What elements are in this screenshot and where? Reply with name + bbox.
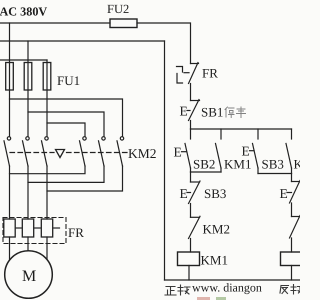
svg-text:KM1: KM1 [224, 157, 251, 172]
wire pole 2 output down to FR [27, 166, 29, 219]
wire FR to motor U [9, 237, 11, 261]
wire phase A through fuse to KM1 pole 1 [9, 63, 11, 137]
svg-text:E: E [180, 186, 188, 201]
power line L3 [0, 59, 47, 61]
power line L2 [0, 40, 165, 42]
power line L1 [0, 22, 110, 24]
wire pole 3 output down to FR [46, 166, 48, 219]
fuse FU1 pole 1 [6, 63, 14, 91]
wire KM2 pole 5 output to phase V [28, 166, 104, 182]
wire KM1 coil to bottom rail [188, 266, 190, 281]
wire phase B branch to KM2 pole 5 [28, 112, 104, 136]
label 正转 (forward) [165, 285, 190, 295]
fuse FU1 pole 2 [24, 63, 32, 91]
wire KM1 interlock to KM2 coil [291, 238, 293, 252]
coil KM2 (clipped at right edge) [281, 252, 303, 266]
contactor KM1 main contact pole 1 [4, 137, 11, 166]
wire KM2 pole 6 output to phase W [47, 166, 123, 191]
wire phase A branch to KM2 pole 6 [10, 99, 123, 136]
svg-text:KM2: KM2 [128, 146, 157, 161]
svg-text:FR: FR [202, 66, 218, 81]
wire FR to motor V [27, 237, 29, 252]
wire KM2 pole 4 output to phase U [10, 166, 86, 174]
wire phase B through fuse to KM1 pole 2 [27, 63, 29, 137]
wire join SB3/KM2 [258, 173, 292, 175]
pushbutton SB1 stop (NC) [180, 100, 200, 121]
wire SB3 to KM2 interlock [190, 204, 192, 218]
wire phase B drop [27, 41, 29, 63]
wire phase C drop [46, 60, 48, 63]
svg-text:www. diangon: www. diangon [192, 281, 262, 295]
svg-text:KM2: KM2 [203, 222, 230, 237]
wire right branch down [291, 174, 293, 182]
wire join SB2/KM1 [191, 171, 222, 173]
svg-text:SB2: SB2 [193, 157, 215, 172]
svg-text:KM1: KM1 [201, 253, 228, 268]
wire right control rail [164, 41, 166, 280]
svg-text:SB3: SB3 [204, 186, 226, 201]
contactor KM2 interlock contact (NC) [189, 216, 201, 238]
contactor KM1 main contact pole 2 [23, 137, 30, 166]
svg-text:AC 380V: AC 380V [0, 5, 47, 19]
contactor KM1 interlock contact (NC, right branch) [290, 216, 301, 239]
pushbutton SB2 interlock (NC, right branch) [280, 181, 301, 204]
contactor KM1 auxiliary contact (NO, seal-in) [216, 129, 222, 172]
motor M [5, 251, 53, 299]
svg-text:E: E [242, 144, 250, 159]
wire branch bus [191, 128, 292, 130]
contactor KM2 main contact pole 4 [80, 137, 87, 166]
wire phase C branch to KM2 pole 4 [47, 123, 85, 136]
svg-text:E: E [280, 186, 288, 201]
svg-text:FR: FR [68, 225, 84, 240]
wire bottom control rail [165, 279, 301, 281]
contactor KM1 main contact pole 3 [42, 137, 49, 166]
mechanical interlock triangle [56, 150, 65, 158]
thermal relay FR dashed enclosure [3, 218, 66, 244]
pushbutton SB3 interlock (NC) [180, 181, 201, 204]
thermal relay FR control contact (NC) [177, 63, 199, 84]
watermark colored fragments [197, 297, 210, 300]
pushbutton SB3 reverse start (NO) [242, 129, 259, 174]
contactor KM2 main contact pole 5 [99, 137, 106, 166]
thermal relay linkage dashes [16, 227, 59, 229]
wire phase A drop [9, 23, 11, 63]
wire SB2 to KM1 interlock (right branch) [291, 203, 293, 217]
thermal relay FR heater element 1 [4, 219, 15, 237]
contactor KM2 main contact pole 6 [117, 137, 124, 166]
fuse FU1 pole 3 [43, 63, 51, 91]
wire SB1 to branch bus [190, 121, 192, 130]
wire FR to motor W [46, 237, 48, 260]
pushbutton SB2 forward start (NO) [174, 129, 191, 172]
label 停车 (stop) [225, 107, 246, 118]
svg-text:M: M [22, 268, 36, 285]
mechanical linkage dashed line [10, 152, 127, 154]
wire KM2 interlock to KM1 coil [190, 239, 192, 253]
svg-text:FU1: FU1 [57, 73, 80, 88]
wire phase C through fuse to KM1 pole 3 [46, 63, 48, 137]
thermal relay FR heater element 2 [22, 219, 33, 237]
wire L1 to control rail [137, 23, 191, 64]
svg-text:SB1: SB1 [201, 105, 223, 120]
coil KM1 [178, 252, 200, 266]
svg-text:E: E [174, 145, 182, 160]
label 反转 (reverse, clipped) [280, 285, 303, 295]
wire KM2 coil to bottom rail [291, 266, 293, 281]
wire pole 1 output down to FR [9, 166, 11, 219]
thermal relay FR heater element 3 [41, 219, 52, 237]
contactor KM2 auxiliary contact (NO, seal-in) [286, 129, 292, 174]
svg-text:SB3: SB3 [262, 157, 284, 172]
svg-text:KM2: KM2 [294, 157, 301, 172]
svg-text:FU2: FU2 [107, 2, 129, 16]
wire FR contact to SB1 [190, 84, 192, 101]
fuse FU2 [110, 19, 137, 28]
wire left branch down [190, 172, 192, 182]
